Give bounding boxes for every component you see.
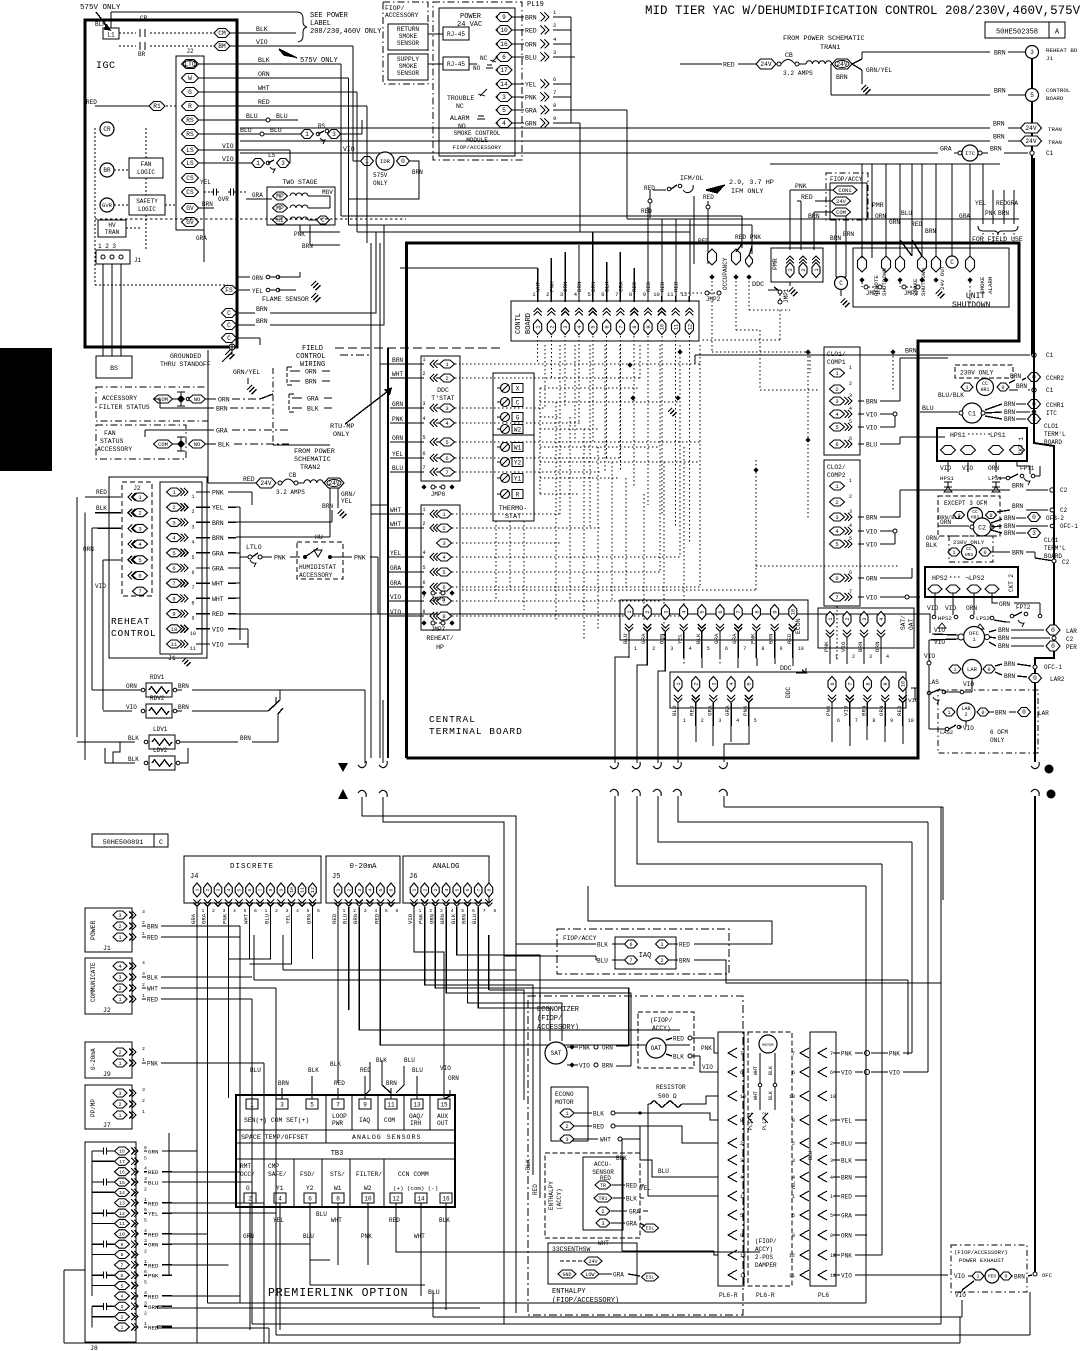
svg-text:2: 2 [660, 958, 663, 964]
svg-text:R1: R1 [153, 103, 161, 110]
svg-text:7: 7 [736, 610, 742, 613]
svg-text:ACCY): ACCY) [755, 1246, 773, 1253]
ECON pin 9 [771, 605, 779, 620]
REHEAT J1 connector [160, 482, 202, 654]
svg-text:NO: NO [194, 441, 201, 448]
fan status COM pin [154, 440, 173, 448]
24V hex pin feed [738, 63, 757, 65]
svg-text:BLK: BLK [218, 442, 230, 449]
svg-text:BRN: BRN [990, 146, 1002, 153]
filter status COM pin [154, 395, 173, 403]
svg-text:6: 6 [718, 610, 724, 613]
wire BLK fan [206, 443, 216, 445]
svg-text:(FIOP/: (FIOP/ [650, 1017, 673, 1024]
svg-text:8: 8 [754, 610, 760, 613]
svg-text:9: 9 [890, 718, 893, 724]
COMMUNICATE J2 pin 3 [113, 973, 127, 981]
wire smoke gra [571, 56, 575, 58]
svg-text:BLU: BLU [622, 633, 629, 644]
svg-text:COMP1: COMP1 [827, 359, 846, 366]
svg-text:VIO: VIO [390, 594, 401, 601]
svg-text:9: 9 [883, 682, 889, 685]
vertical 941 [940, 807, 942, 1324]
wire WHT to reheat-hp 1 [388, 513, 424, 515]
svg-text:GRA: GRA [731, 633, 738, 644]
svg-text:17: 17 [119, 1159, 125, 1165]
J7 pin 2 [113, 1100, 127, 1108]
wire PNK PL19-7 [512, 96, 524, 98]
svg-text:ORN: ORN [126, 683, 137, 690]
ECON pin 6 [716, 605, 724, 620]
svg-text:BLU: BLU [658, 1168, 669, 1175]
svg-text:UNIT: UNIT [966, 292, 985, 301]
svg-text:4: 4 [144, 1166, 147, 1172]
j8 left bus [91, 1151, 93, 1275]
svg-text:VIO: VIO [840, 641, 847, 652]
HI pin [273, 216, 288, 224]
ESL pin 1 [642, 1224, 659, 1232]
svg-text:4: 4 [226, 888, 232, 891]
svg-text:GND: GND [562, 1272, 571, 1278]
svg-text:3: 3 [787, 268, 794, 271]
svg-text:2.9, 3.7 HP: 2.9, 3.7 HP [729, 179, 774, 187]
CONTL BOARD pin 8 [630, 320, 638, 335]
svg-text:C1: C1 [1046, 387, 1054, 394]
CLO2 pin 2 [830, 498, 845, 506]
J1 wires down [102, 264, 104, 350]
wire VIO to reheat-hp 8 [388, 615, 424, 617]
svg-text:9: 9 [772, 610, 778, 613]
svg-text:Y2: Y2 [306, 1185, 314, 1192]
svg-text:5: 5 [422, 565, 425, 571]
svg-text:1: 1 [142, 931, 145, 937]
svg-text:0: 0 [1051, 643, 1055, 650]
econo pin 3 [560, 1135, 574, 1143]
svg-text:3: 3 [1032, 530, 1036, 537]
svg-text:5: 5 [378, 888, 384, 891]
svg-text:1: 1 [305, 131, 309, 138]
24V pin [832, 197, 851, 205]
ECON pin 4 [680, 605, 688, 620]
wire j2 wht right [161, 987, 276, 989]
dotted wire below contl pin 7 [619, 336, 621, 472]
svg-text:GRA: GRA [613, 1272, 624, 1279]
svg-text:ECONOMIZER: ECONOMIZER [537, 1006, 580, 1014]
svg-text:2: 2 [205, 888, 211, 891]
IGC J2 pin RS [182, 116, 199, 125]
mesh y1003 [468, 975, 563, 1041]
svg-text:BLK: BLK [147, 975, 158, 982]
TB3 terminal 16 [440, 1193, 452, 1203]
svg-text:C1: C1 [1046, 352, 1054, 359]
svg-text:10: 10 [740, 1094, 746, 1100]
svg-text:3: 3 [286, 908, 289, 914]
CLO1 pin 6 [830, 440, 845, 448]
svg-text:4: 4 [144, 1228, 147, 1234]
svg-text:GRN: GRN [148, 1149, 159, 1156]
svg-text:ECONO: ECONO [555, 1091, 574, 1098]
svg-text:5: 5 [172, 550, 175, 557]
24v out ground [933, 277, 938, 282]
PL6 pin left 3 [800, 1155, 809, 1165]
field wiring bracket 2 [288, 394, 290, 412]
svg-text:24V: 24V [1025, 125, 1036, 132]
CKT2 pin [967, 585, 981, 593]
wire VIO clo1-4 [858, 413, 864, 415]
reheat J1 pin 1 PNK [167, 488, 182, 496]
svg-text:BRN: BRN [278, 1080, 289, 1087]
svg-text:1: 1 [952, 550, 955, 556]
PL6 pin right 8 [818, 1115, 827, 1125]
svg-text:1: 1 [660, 942, 663, 948]
CLO1 pin 2 [830, 385, 845, 393]
svg-text:1: 1 [256, 160, 260, 167]
svg-text:6: 6 [604, 325, 610, 328]
svg-text:9: 9 [792, 1233, 795, 1239]
wire brn c2 2 [997, 510, 1010, 512]
svg-text:4: 4 [736, 718, 739, 724]
dotted wire below contl pin 11 [675, 336, 677, 528]
svg-text:ORN: ORN [428, 914, 435, 924]
svg-text:BRN: BRN [841, 1175, 852, 1182]
svg-text:6 OFM: 6 OFM [990, 729, 1008, 736]
CKT2 thick box [925, 567, 1018, 597]
svg-text:CB: CB [785, 52, 793, 59]
occupancy pin 2 [732, 249, 741, 265]
svg-text:4: 4 [681, 610, 687, 613]
IAQ box [615, 937, 676, 969]
svg-text:BLU: BLU [392, 465, 403, 472]
svg-text:C2: C2 [1062, 559, 1070, 566]
svg-text:FILTER/: FILTER/ [356, 1171, 382, 1178]
svg-text:BRN: BRN [1012, 503, 1023, 510]
svg-text:3: 3 [121, 1304, 124, 1310]
mesh 488 down [489, 990, 524, 1100]
svg-text:CS: CS [186, 189, 194, 196]
svg-text:BLU: BLU [276, 113, 288, 120]
tstat wire stubs left vertical [388, 363, 408, 365]
svg-text:EXCEPT 3 OFM: EXCEPT 3 OFM [944, 500, 988, 507]
flame sensor wires [237, 276, 250, 278]
svg-text:LAS: LAS [928, 679, 939, 686]
svg-text:VIO: VIO [579, 1063, 590, 1070]
wire PNK from MGV [299, 225, 301, 232]
svg-text:RED: RED [212, 611, 224, 618]
svg-text:PL6-R: PL6-R [756, 1292, 775, 1299]
wire BRN j6-4 to sat brn [446, 935, 631, 1066]
svg-text:9: 9 [780, 646, 783, 652]
svg-text:BLK: BLK [258, 57, 270, 64]
PER relay circle [985, 1269, 999, 1283]
svg-text:5: 5 [707, 646, 710, 652]
svg-text:G: G [188, 89, 192, 96]
svg-text:GVR: GVR [218, 196, 229, 203]
wire ORN econ3 to break [658, 658, 665, 758]
wire VIO LS2 with LS switch [199, 162, 252, 164]
svg-text:BLU/BLK: BLU/BLK [938, 392, 964, 399]
svg-text:208/230,460V ONLY: 208/230,460V ONLY [310, 28, 382, 36]
arrow 575V to L1 [96, 12, 110, 30]
HV TRAN box [98, 220, 126, 237]
wire GRA fan [145, 429, 214, 431]
svg-text:VIO: VIO [702, 1064, 713, 1071]
dashed igc line out [95, 218, 406, 220]
svg-text:3.2 AMPS: 3.2 AMPS [276, 489, 305, 496]
IGC J2 pin W [182, 74, 199, 83]
svg-text:FIOP/ACCY: FIOP/ACCY [830, 176, 863, 183]
svg-text:2: 2 [142, 1098, 145, 1104]
2-POS DAMPER dashed box [748, 1032, 792, 1286]
svg-text:SENSOR: SENSOR [592, 1169, 614, 1176]
J8 pin 10 [115, 1230, 130, 1238]
wire VIO pl6 1072 [833, 1071, 840, 1073]
svg-text:RJ-45: RJ-45 [447, 61, 465, 68]
GND pin [558, 1270, 576, 1278]
capacitor j8-3 [101, 1305, 104, 1307]
svg-text:1: 1 [144, 1259, 147, 1265]
wire WHT igc down [356, 92, 358, 232]
svg-text:7: 7 [553, 89, 556, 96]
dotted wire below contl pin 2 [550, 336, 552, 378]
svg-text:0: 0 [989, 513, 992, 519]
wire bends into smoke shutdown [900, 240, 912, 256]
svg-text:RED: RED [641, 208, 652, 215]
svg-text:ACCESSORY: ACCESSORY [385, 12, 419, 19]
svg-text:OUT: OUT [437, 1120, 448, 1127]
wire BLK LTO [199, 63, 341, 65]
J4 pin 10 [288, 883, 296, 897]
wire shutdown vertical 872 [871, 164, 873, 258]
svg-text:LDV2: LDV2 [153, 747, 168, 754]
svg-text:3: 3 [440, 908, 443, 914]
EXCEPT 3 OFM dashed box [938, 496, 1000, 536]
svg-text:5: 5 [461, 908, 464, 914]
REHEAT/HP pin 1 [437, 510, 452, 518]
bus line 3 [357, 231, 690, 233]
24V hex out [832, 59, 852, 69]
svg-text:SMOKE: SMOKE [399, 33, 418, 40]
svg-text:BLK: BLK [330, 1061, 341, 1068]
staircase wire 615 [615, 796, 866, 886]
wire WHT G [199, 91, 357, 93]
svg-text:1: 1 [195, 888, 201, 891]
svg-text:SMOKE CONTROL: SMOKE CONTROL [454, 130, 501, 137]
svg-text:ESL: ESL [646, 1226, 655, 1232]
CLO2 pin 5 [830, 540, 845, 548]
wire BLU vertical 912 [911, 164, 913, 256]
svg-text:3: 3 [445, 405, 448, 412]
svg-text:CLO1: CLO1 [1044, 537, 1059, 544]
MGV coils [290, 193, 308, 196]
svg-text:YEL: YEL [252, 288, 263, 295]
svg-text:6: 6 [837, 718, 840, 724]
svg-text:WHT: WHT [753, 1091, 759, 1100]
svg-text:2-POS: 2-POS [755, 1254, 773, 1261]
econo motor wires [574, 1112, 592, 1114]
svg-text:RED: RED [689, 705, 696, 716]
svg-text:Y2: Y2 [514, 459, 522, 466]
svg-text:REHEAT/: REHEAT/ [426, 635, 453, 642]
LAR terminal 2 [1018, 708, 1031, 717]
svg-text:BR: BR [103, 167, 111, 174]
svg-text:3: 3 [144, 1238, 147, 1244]
tran2 brn wire [329, 488, 331, 505]
ECON pin 5 [698, 605, 706, 620]
svg-text:5: 5 [191, 555, 194, 561]
svg-text:3: 3 [862, 617, 868, 620]
svg-text:GRN/: GRN/ [341, 491, 356, 498]
svg-text:1: 1 [422, 507, 425, 513]
wire BRN 24V tran 2 [240, 140, 990, 142]
wire VIO clo1-5 [858, 426, 864, 428]
svg-text:IAQ: IAQ [359, 1117, 370, 1124]
wire GRA to MP [246, 198, 272, 200]
svg-text:BLK: BLK [768, 1066, 774, 1075]
svg-text:LOW: LOW [585, 1272, 594, 1278]
svg-text:2: 2 [442, 525, 445, 532]
FS flame sensor pin [221, 286, 237, 295]
PL6 pin left 12 [800, 1250, 809, 1260]
break squiggles left pair [358, 761, 366, 768]
wire shutdown vertical 952 [951, 164, 953, 256]
svg-text:HUMIDISTAT: HUMIDISTAT [299, 564, 336, 571]
svg-text:PREMIERLINK OPTION: PREMIERLINK OPTION [268, 1287, 408, 1300]
svg-text:RED: RED [525, 28, 537, 35]
svg-text:BLK: BLK [308, 1067, 319, 1074]
wire BRN pl6 1177 [833, 1176, 840, 1178]
svg-text:GV: GV [186, 205, 194, 212]
svg-text:BRN: BRN [212, 535, 224, 542]
svg-text:BRN: BRN [1014, 1274, 1025, 1281]
svg-text:2: 2 [845, 617, 851, 620]
svg-text:6: 6 [835, 575, 838, 582]
svg-text:RED: RED [679, 942, 690, 949]
33CSENTHSW box [548, 1243, 637, 1284]
svg-text:8: 8 [792, 1118, 795, 1124]
svg-text:OFC-1: OFC-1 [1060, 523, 1078, 530]
svg-text:GRN/YEL: GRN/YEL [866, 67, 892, 74]
FIOP/ACCY box outer [826, 173, 868, 220]
svg-text:10: 10 [500, 27, 508, 34]
svg-text:7: 7 [191, 585, 194, 591]
HU humidistat box [297, 542, 343, 579]
TB3 terminal 14 [415, 1193, 427, 1203]
wires vio ofc1 [932, 634, 958, 635]
JMP6 jumper [431, 485, 435, 489]
J6 pin 6 [464, 883, 472, 897]
svg-text:4: 4 [422, 416, 425, 422]
svg-text:CR: CR [140, 15, 148, 22]
POWER J1 pin 2 [113, 922, 127, 930]
svg-text:7: 7 [849, 589, 852, 595]
LAR2 terminal [1029, 674, 1042, 683]
thermostat terminal G [501, 413, 510, 422]
wire BRN j6-6 [467, 907, 469, 935]
svg-text:THRU STANDOFF: THRU STANDOFF [160, 361, 211, 368]
vio vertical into las2 [928, 691, 930, 729]
IAQ pin 6 [625, 940, 638, 948]
wire GRN tb3 below [249, 1203, 251, 1246]
REHEAT CONTROL box [109, 477, 207, 658]
svg-text:CCHR2: CCHR2 [1046, 375, 1064, 382]
BR relay circle [100, 163, 114, 177]
svg-text:PNK: PNK [795, 183, 807, 190]
IGC J2 pin CS [182, 188, 199, 197]
wire ORN j8-3 [144, 1305, 147, 1307]
svg-text:5: 5 [310, 1102, 314, 1109]
svg-text:BRN: BRN [216, 406, 228, 413]
vertical 928 [927, 822, 929, 1072]
svg-text:3: 3 [502, 94, 506, 101]
wire BRN to reheat bd [852, 59, 862, 64]
svg-text:BRN: BRN [352, 914, 359, 924]
DDC TSTAT pin 1 [440, 360, 455, 368]
svg-text:PMR: PMR [872, 202, 884, 209]
svg-text:6: 6 [629, 942, 632, 948]
svg-text:10: 10 [289, 887, 295, 893]
svg-text:(FIOP/ACCESSORY): (FIOP/ACCESSORY) [552, 1297, 619, 1305]
svg-text:CCHR1: CCHR1 [1046, 402, 1064, 409]
svg-text:G: G [246, 1185, 250, 1192]
24V TRAN pin 2 [1021, 136, 1042, 146]
svg-text:FOR FIELD USE: FOR FIELD USE [972, 236, 1023, 243]
reheat J2 pin 4 [132, 540, 136, 548]
CR relay circle [100, 122, 114, 136]
R1 pin [149, 102, 165, 111]
smoke alarm pin [966, 256, 975, 272]
thermostat terminal R [501, 490, 510, 499]
wire RED pl6 1196 [833, 1195, 840, 1197]
C pin MGV [317, 216, 330, 224]
ACCU-SENSOR box [583, 1157, 623, 1230]
svg-text:PNK: PNK [294, 231, 305, 238]
wire PNK pl6 1255 [833, 1254, 840, 1256]
svg-text:3: 3 [280, 1102, 284, 1109]
oat wires [666, 1038, 672, 1040]
svg-text:6: 6 [144, 1145, 147, 1151]
svg-text:11: 11 [830, 1273, 836, 1279]
svg-text:5: 5 [144, 1217, 147, 1223]
svg-text:AUX: AUX [437, 1113, 448, 1120]
svg-text:2: 2 [142, 982, 145, 988]
wire left break to 504 [383, 797, 504, 956]
PMR pin 1 [812, 260, 820, 264]
J5 pin 1 [334, 883, 342, 897]
svg-text:CC: CC [966, 546, 972, 552]
svg-text:6: 6 [191, 570, 194, 576]
yel wire [648, 1150, 718, 1196]
UNIT SHUTDOWN box [853, 248, 1009, 307]
GVR capacitor contacts [211, 191, 214, 193]
bottom rail 1308 [157, 1307, 480, 1309]
CM pin [214, 29, 230, 38]
svg-text:LOOP: LOOP [332, 1113, 347, 1120]
svg-text:4: 4 [118, 964, 121, 970]
DDC TSTAT pin 3 [440, 404, 455, 412]
ECON pin 2 [643, 605, 651, 620]
wire BRN GV [199, 207, 214, 209]
svg-text:BRN: BRN [860, 705, 867, 716]
svg-text:VIO: VIO [866, 412, 877, 419]
wire BRN j5-3 [358, 907, 360, 935]
wire BRN j6-4 [445, 907, 447, 935]
svg-text:BRN: BRN [1004, 401, 1015, 408]
CLO2 pin 4 [830, 527, 845, 535]
JMP3 jumper [897, 277, 902, 282]
svg-text:2: 2 [346, 888, 352, 891]
wire YEL PL19-6 [512, 83, 524, 85]
terminal 5 control board [1026, 89, 1039, 102]
